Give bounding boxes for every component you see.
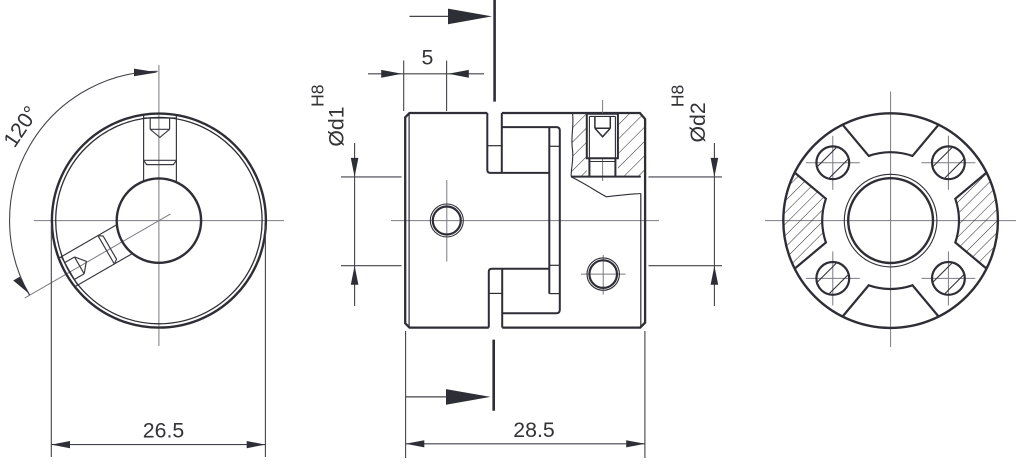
right hole thread circle	[587, 258, 619, 290]
outer circle flange	[783, 113, 998, 328]
svg-text:26.5: 26.5	[143, 419, 184, 443]
top slit step	[487, 145, 502, 147]
dim 5 extension left	[403, 61, 405, 112]
left chamfer line	[408, 113, 410, 328]
right hole circle	[589, 260, 617, 288]
body outline	[405, 113, 645, 328]
right hole centerline vertical	[602, 255, 604, 295]
wedge left outline	[795, 173, 826, 269]
window bottom	[843, 285, 939, 316]
section plane line top	[493, 0, 496, 102]
bolt hole bottom-left centerlines	[806, 277, 860, 279]
dim d2 arrow bottom	[711, 266, 719, 285]
120deg dimension arc	[10, 71, 158, 295]
horizontal centerline middle view	[391, 220, 659, 222]
right chamfer line	[640, 194, 642, 328]
section arrow bottom stem	[406, 396, 446, 398]
dim d1 arrow top	[351, 158, 359, 177]
set screw M4 at 210deg	[58, 225, 133, 288]
bottom slit right wall	[501, 269, 503, 328]
28.5 extension right	[644, 331, 646, 458]
28.5 dimension line	[406, 443, 645, 445]
section hatch left patch	[571, 113, 587, 177]
svg-text:28.5: 28.5	[513, 418, 554, 442]
top slit	[487, 113, 549, 173]
section arrow top head	[448, 9, 492, 25]
bolt hole top-right centerlines	[921, 162, 975, 164]
arc arrow bottom	[13, 277, 30, 295]
screw hole walls below	[589, 158, 615, 176]
dim 5 extension right	[446, 61, 448, 112]
28.5 arrow left	[406, 440, 425, 447]
26.5 arrow left	[51, 441, 70, 448]
svg-text:120°: 120°	[0, 102, 43, 152]
left hole centerline	[446, 180, 448, 262]
sectioned screw thread lines	[589, 116, 615, 161]
bore circle d1	[117, 178, 201, 262]
left hole circle	[433, 207, 461, 235]
middle vertical line	[548, 127, 550, 294]
svg-text:H8: H8	[668, 85, 688, 107]
bolt hole bottom-right	[933, 263, 963, 293]
bolt hole top-right	[933, 148, 963, 178]
svg-text:Ød1: Ød1	[325, 106, 349, 146]
svg-text:H8: H8	[307, 85, 327, 107]
bolt hole bottom-left	[818, 263, 848, 293]
bottom slit	[489, 269, 550, 328]
right hole centerline horizontal	[581, 273, 626, 275]
dim d1 arrow bottom	[351, 266, 359, 285]
pocket floor	[571, 176, 641, 178]
chamfer circle	[56, 117, 262, 323]
horizontal centerline right view	[765, 220, 1016, 222]
vertical centerline left view	[158, 65, 160, 346]
bolt hole top-left	[818, 148, 848, 178]
dim d2 line	[713, 143, 715, 306]
dim 5 arrow right	[448, 70, 469, 78]
dim d1 ext top	[341, 176, 402, 178]
dim d2 ext top	[649, 176, 723, 178]
bottom slit step	[489, 292, 502, 294]
sectioned screw outline	[587, 114, 618, 159]
26.5 arrow right	[247, 441, 266, 448]
break line bottom	[571, 177, 641, 197]
26.5 extension line left	[50, 226, 52, 457]
dim d1 ext bottom	[341, 265, 402, 267]
horizontal centerline left view	[34, 220, 284, 222]
bore chamfer circle	[844, 174, 937, 267]
26.5 dimension line	[51, 444, 265, 446]
section plane line bottom	[492, 340, 495, 411]
set screw M4 top	[144, 114, 177, 182]
window top	[843, 125, 939, 156]
flange wedge hatch left	[783, 173, 826, 269]
bore circle d2	[848, 178, 933, 263]
top slit right wall	[501, 113, 503, 173]
arc arrow top	[134, 69, 158, 77]
26.5 extension line right	[264, 226, 266, 457]
left hole thread circle	[430, 204, 463, 237]
step lower middle	[549, 264, 560, 266]
break line wavy left	[571, 113, 573, 177]
section arrow bottom head	[446, 389, 491, 405]
sectioned screw hex socket	[595, 116, 610, 136]
section hatch right patch	[618, 113, 645, 177]
vertical centerline right view	[890, 92, 892, 348]
screw axis 210deg	[25, 214, 171, 298]
dim d1 line	[354, 143, 356, 306]
28.5 extension left	[405, 331, 407, 458]
middle disc boundary	[502, 127, 560, 313]
step lowest middle	[549, 293, 560, 295]
svg-text:5: 5	[421, 46, 433, 70]
bolt hole bottom-right centerlines	[921, 277, 975, 279]
svg-text:Ød2: Ød2	[686, 102, 710, 142]
bolt hole top-left centerlines	[806, 162, 860, 164]
section arrow top stem	[410, 15, 449, 17]
outer circle	[52, 114, 266, 328]
flange wedge hatch right	[955, 173, 998, 269]
dim d2 arrow top	[711, 158, 719, 177]
screw centerline	[602, 100, 604, 181]
28.5 arrow right	[626, 440, 645, 447]
dim d2 ext bottom	[649, 265, 723, 267]
dim 5 line	[368, 73, 484, 75]
dim 5 arrow left	[381, 70, 402, 78]
step upper middle	[549, 145, 560, 147]
wedge right outline	[955, 173, 986, 269]
